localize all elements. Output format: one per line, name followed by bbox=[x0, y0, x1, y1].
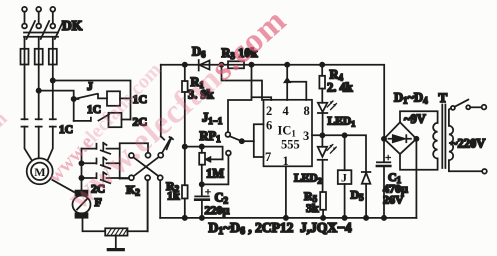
wire phase1 to motor bbox=[25, 127, 32, 160]
potentiometer RP1 bbox=[199, 147, 222, 185]
svg-text:220µ: 220µ bbox=[205, 203, 230, 217]
fuse 3 bbox=[49, 49, 57, 65]
node phase3 branch bbox=[51, 78, 55, 82]
wire phase3 branch to coil circuit bbox=[53, 81, 131, 120]
node RP1 bottom bbox=[200, 182, 204, 186]
svg-text:D1~D6 , 2CP12: D1~D6 , 2CP12 bbox=[209, 220, 294, 237]
svg-text:7: 7 bbox=[265, 150, 271, 164]
F tachogenerator bbox=[73, 191, 91, 218]
svg-text:8: 8 bbox=[304, 104, 310, 118]
resistor R1 bbox=[182, 65, 188, 147]
wire rail to IC corner (W1) bbox=[222, 65, 263, 100]
wire phase2 to motor bbox=[38, 127, 40, 159]
svg-text:LED2: LED2 bbox=[294, 173, 322, 186]
node R3 left bbox=[219, 63, 223, 67]
wire phase1 mid bbox=[24, 65, 26, 120]
node pin4 top bbox=[285, 63, 289, 67]
node J bottom bbox=[343, 216, 347, 220]
svg-text:~220V: ~220V bbox=[451, 137, 485, 151]
svg-text:DK: DK bbox=[62, 18, 83, 33]
wire RP1 top bbox=[185, 147, 223, 160]
svg-text:J: J bbox=[341, 171, 347, 185]
bottom rail bbox=[160, 217, 416, 219]
capacitor C1 bbox=[377, 139, 391, 218]
resistor R5 bbox=[320, 192, 326, 218]
node RP1 top bbox=[200, 145, 204, 149]
node bridge right bbox=[414, 137, 418, 141]
wire 555 pins 6-7 bracket bbox=[254, 124, 264, 157]
knife switch DK bars bbox=[24, 33, 58, 37]
switch K2 circles bbox=[129, 153, 163, 181]
wire bridge right to bottom rail bbox=[415, 139, 417, 218]
wire phase2 upper bbox=[38, 38, 40, 49]
svg-text:LED1: LED1 bbox=[328, 116, 356, 129]
svg-text:D1~D4: D1~D4 bbox=[394, 91, 428, 106]
contactor coil 1C bbox=[107, 91, 120, 106]
aux contact 1C bbox=[74, 114, 109, 121]
transformer secondary winding bbox=[433, 123, 437, 159]
left supply rail vertical bbox=[160, 65, 162, 137]
wire bridge bottom to transformer bbox=[400, 154, 438, 170]
transformer T core bbox=[442, 105, 445, 169]
LED1 bbox=[318, 101, 337, 135]
svg-text:J,JQX−4: J,JQX−4 bbox=[300, 220, 352, 235]
fuse 2 bbox=[35, 49, 43, 65]
wire bridge top to transformer bbox=[400, 111, 438, 123]
svg-text:2. 4k: 2. 4k bbox=[327, 81, 353, 95]
node J contact bbox=[72, 97, 76, 101]
hatched plate bbox=[105, 228, 127, 235]
wire rail to J1-1 upper (W2) bbox=[228, 65, 252, 132]
wire phase3 to motor bbox=[48, 127, 53, 160]
switch K2 stub to bottom-left bbox=[120, 178, 129, 180]
svg-text:T: T bbox=[439, 90, 448, 105]
svg-text:IC1: IC1 bbox=[278, 124, 297, 139]
mains switch bbox=[451, 100, 486, 110]
shaft link M to F bbox=[52, 180, 74, 192]
svg-text:2: 2 bbox=[266, 104, 272, 118]
svg-text:D6: D6 bbox=[192, 45, 206, 60]
svg-text:J1−1: J1−1 bbox=[202, 111, 223, 127]
svg-text:3: 3 bbox=[303, 129, 309, 143]
svg-text:1M: 1M bbox=[206, 167, 224, 181]
svg-text:26V: 26V bbox=[383, 193, 404, 207]
junction arrow pin4 bbox=[285, 78, 290, 82]
svg-text:RP1: RP1 bbox=[200, 129, 222, 144]
2C contact row1 bbox=[82, 143, 120, 154]
wire phase3 upper bbox=[52, 38, 54, 49]
wire pin1 to bottom rail bbox=[285, 166, 287, 218]
fuse 1 bbox=[21, 49, 29, 65]
resistor R4 bbox=[319, 65, 325, 103]
wire primary top to switch bbox=[449, 108, 451, 126]
top supply rail bbox=[161, 65, 384, 139]
terminal 220V bottom bbox=[482, 169, 487, 174]
switch K2 cross links bbox=[134, 157, 159, 176]
svg-text:ans.com: ans.com bbox=[0, 107, 12, 171]
node phase2 branch bbox=[37, 89, 41, 93]
wire W2 branch to pin2 bbox=[252, 97, 272, 100]
node C1 bottom bbox=[382, 216, 386, 220]
svg-text:555: 555 bbox=[281, 138, 300, 152]
node R3 right bbox=[249, 63, 253, 67]
wire phase1 upper bbox=[24, 38, 26, 49]
diode D6 bbox=[199, 60, 210, 71]
wire coil 2C to right bus bbox=[122, 119, 131, 121]
svg-text:4: 4 bbox=[283, 104, 290, 118]
svg-text:1C: 1C bbox=[59, 124, 73, 136]
wire phase3 mid bbox=[52, 65, 54, 120]
svg-text:1k: 1k bbox=[167, 189, 180, 203]
wire F to hatch plate bbox=[83, 218, 106, 232]
ground bbox=[115, 236, 117, 249]
bridge rectifier D1-D4 bbox=[384, 122, 416, 154]
2C contact row2 bbox=[82, 158, 120, 169]
contactor coil 2C bbox=[109, 113, 122, 127]
resistor R2 bbox=[182, 147, 188, 218]
node bridge left bbox=[382, 137, 386, 141]
transformer primary winding bbox=[449, 126, 453, 160]
wire K2 bottom-middle down bbox=[147, 180, 149, 231]
node C2 bottom bbox=[200, 216, 204, 220]
wire phase2 mid bbox=[38, 65, 40, 120]
wire pin3 net bbox=[312, 135, 366, 172]
wire coil 1C to right bus bbox=[120, 97, 131, 99]
svg-text:3k: 3k bbox=[306, 201, 319, 215]
node R1 top bbox=[183, 63, 187, 67]
K2 jaw and blade bbox=[161, 136, 173, 153]
diode D5 bbox=[362, 172, 371, 218]
knife switch DK blades bbox=[27, 21, 64, 39]
2C contact left bus bbox=[81, 149, 83, 191]
LED2 bbox=[318, 135, 337, 192]
terminal circles L1 L2 L3 bbox=[22, 7, 55, 29]
IC U1 555 bbox=[264, 100, 313, 167]
resistor R3 bbox=[228, 61, 244, 68]
node RP1 top wire left bbox=[183, 145, 187, 149]
relay contact J bbox=[74, 94, 107, 99]
svg-text:D5: D5 bbox=[351, 188, 365, 203]
node R2 bottom bbox=[183, 216, 187, 220]
relay coil J bbox=[338, 135, 352, 218]
node R4 top bbox=[320, 63, 324, 67]
contactor main contacts 1C ticks bbox=[22, 119, 56, 126]
2C contact row3 bbox=[82, 172, 129, 183]
wire primary bottom to terminal bbox=[449, 160, 482, 171]
wire pin4 pin8 from rail bbox=[287, 65, 306, 100]
svg-text:6: 6 bbox=[266, 119, 272, 133]
wire hatch plate to K2 bbox=[128, 180, 148, 231]
svg-text:K2: K2 bbox=[126, 183, 140, 198]
svg-text:J: J bbox=[87, 81, 93, 93]
relay contact J1-1 bbox=[202, 132, 254, 184]
capacitor C2 bbox=[195, 184, 210, 218]
node R5 bottom bbox=[321, 216, 325, 220]
motor M bbox=[27, 158, 53, 184]
node D5 bottom bbox=[364, 216, 368, 220]
wire phase2 branch to J contact bbox=[39, 91, 74, 121]
wire K2 bottom-right to bottom rail bbox=[159, 180, 161, 218]
node pin1 bottom bbox=[284, 216, 288, 220]
svg-text:~9V: ~9V bbox=[404, 112, 426, 126]
switch K2 bridge wire bbox=[120, 143, 148, 178]
